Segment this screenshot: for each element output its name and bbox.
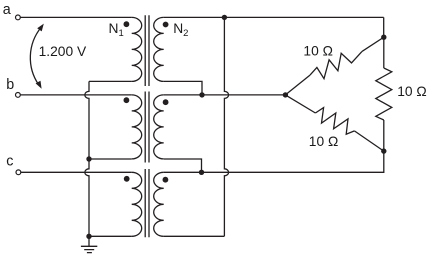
svg-text:N2: N2	[173, 21, 188, 39]
wire: T1 secondary bottom lead down to node	[164, 81, 202, 95]
T1 secondary polarity dot	[163, 22, 169, 28]
transformer T1 primary winding N1	[132, 17, 142, 81]
voltage arrow 1.200 V (curved double-headed)	[30, 28, 41, 85]
resistor 10 ohm (lower diagonal): lead from left node	[285, 95, 315, 113]
ground	[81, 236, 97, 252]
T3 primary polarity dot	[124, 176, 130, 182]
wire: T2 secondary bottom lead down to node	[164, 159, 202, 172]
arrowhead bottom	[36, 81, 42, 89]
svg-text:b: b	[6, 77, 14, 93]
wire: T3 secondary bottom lead	[164, 235, 225, 237]
wire: T3 secondary top lead / bottom bus	[164, 151, 384, 172]
svg-text:10 Ω: 10 Ω	[309, 134, 339, 149]
node: delta bottom	[381, 148, 386, 153]
wire: phase b line from terminal to primary winding 2	[20, 94, 131, 96]
svg-text:1.200 V: 1.200 V	[39, 44, 87, 59]
transformer T2 core	[145, 92, 149, 163]
resistor 10 ohm (right vertical): wire lead top	[383, 37, 385, 68]
terminal c	[16, 170, 21, 175]
transformer T3 primary winding	[132, 172, 142, 236]
wire: primary neutral vertical (hops over b and c lines)	[85, 81, 89, 236]
resistor upper diagonal: lead to top node	[362, 37, 384, 51]
resistor 10 ohm (upper diagonal): lead from left node	[285, 75, 310, 95]
transformer T2 primary winding	[132, 95, 142, 159]
terminal b	[16, 93, 21, 98]
wire: top bus down to delta top node	[383, 17, 385, 37]
resistor right vertical: wire lead bottom	[383, 120, 385, 151]
resistor lower diagonal zigzag	[315, 108, 354, 135]
junction: top bus / secondary loop vertical	[222, 15, 227, 20]
junction: T1 sec bottom / T2 sec top	[199, 92, 204, 97]
node: delta top	[381, 35, 386, 40]
transformer T3 secondary winding	[154, 172, 164, 236]
wire: T1 secondary top lead to right (top bus)	[164, 16, 384, 18]
wire: phase a line from terminal to primary winding 1	[20, 16, 131, 18]
T3 secondary polarity dot	[163, 177, 169, 183]
wire: T2 primary bottom lead	[89, 158, 132, 160]
wire: T3 primary bottom lead	[89, 235, 132, 237]
transformer T3 core	[145, 169, 149, 237]
T2 primary polarity dot	[124, 97, 130, 103]
svg-text:10 Ω: 10 Ω	[303, 43, 333, 58]
wire: T2 secondary top lead / middle bus to delta left node	[164, 94, 286, 96]
transformer T1 secondary winding N2	[154, 17, 164, 81]
wire: T1 primary bottom lead	[89, 80, 132, 82]
svg-text:N1: N1	[109, 21, 124, 39]
T2 secondary polarity dot	[163, 99, 169, 105]
svg-text:c: c	[6, 154, 13, 170]
resistor upper diagonal zigzag	[310, 51, 362, 78]
junction: neutral / T3 primary bottom / ground	[86, 234, 91, 239]
svg-text:10 Ω: 10 Ω	[397, 84, 427, 99]
svg-text:a: a	[3, 2, 11, 18]
resistor lower diagonal: lead to bottom node	[354, 131, 383, 151]
transformer T1 core	[145, 15, 149, 86]
transformer T2 secondary winding	[154, 95, 164, 159]
T1 primary polarity dot	[124, 21, 130, 27]
junction: T2 sec bottom / T3 sec top	[199, 170, 204, 175]
wire: secondary loop vertical (hops over middle and bottom secondary wires)	[224, 17, 228, 236]
junction: neutral / T2 primary bottom	[86, 156, 91, 161]
resistor 10 ohm right vertical zigzag	[376, 68, 392, 120]
arrowhead top	[37, 24, 44, 32]
terminal a	[16, 15, 21, 20]
node: delta left	[283, 92, 288, 97]
wire: phase c line from terminal to primary winding 3	[21, 171, 132, 173]
